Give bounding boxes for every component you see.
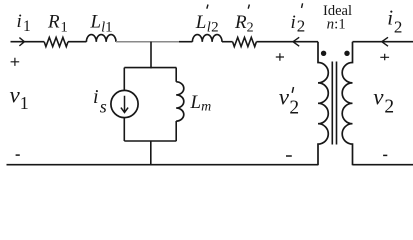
- wire: shunt bottom bar: [124, 140, 176, 142]
- wire: shunt right branch upper: [175, 68, 177, 82]
- current arrow i2: [382, 37, 388, 46]
- label minus of v2': [286, 155, 292, 157]
- resistor R1: [44, 37, 68, 46]
- wire: R2' to transformer primary: [256, 41, 318, 43]
- wire (gray): Ll1 to shunt node: [116, 41, 179, 43]
- wire: shunt node junction drop: [150, 42, 152, 69]
- inductor Ll2': [192, 35, 222, 42]
- wire: shunt bottom drop: [150, 141, 152, 165]
- prime of Ll2': [207, 5, 208, 9]
- wire: shunt right branch lower: [175, 121, 177, 141]
- prime of i2': [302, 3, 303, 8]
- label minus of v2: [383, 154, 387, 156]
- wire: shunt top bar: [124, 67, 176, 69]
- dot: secondary polarity: [344, 51, 349, 56]
- wire: shunt left branch upper: [123, 68, 125, 91]
- wire: Ll2 to R2': [222, 41, 233, 43]
- wire: shunt left branch lower: [123, 118, 125, 141]
- label plus of v1: [11, 58, 20, 66]
- wire: to Ll2: [179, 41, 192, 43]
- transformer secondary winding: [342, 42, 352, 166]
- inductor Lm: [176, 82, 184, 121]
- label plus of v2': [276, 53, 284, 61]
- current arrow i1: [19, 38, 24, 46]
- prime of R2': [248, 5, 249, 9]
- prime of v2': [292, 87, 293, 93]
- current source is: [111, 90, 138, 117]
- wire: R1 to Ll1: [68, 41, 86, 43]
- wire: top-left input lead: [11, 41, 45, 43]
- label plus of v2: [380, 54, 389, 60]
- svg-text:n:1: n:1: [327, 17, 346, 33]
- inductor Ll1: [86, 35, 116, 42]
- resistor R2': [233, 37, 257, 46]
- transformer primary winding: [318, 42, 328, 166]
- wire: secondary top lead: [353, 41, 413, 43]
- current arrow i2': [293, 37, 299, 46]
- label minus of v1: [16, 154, 20, 156]
- transformer core: [332, 62, 336, 145]
- dot: primary polarity: [321, 51, 326, 56]
- current source arrow: [121, 96, 128, 113]
- wire: bottom-right rail: [353, 164, 413, 166]
- wire: bottom-left rail: [7, 164, 319, 166]
